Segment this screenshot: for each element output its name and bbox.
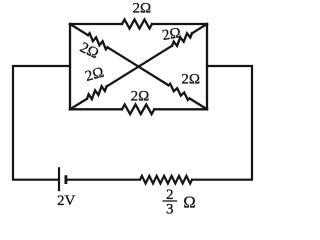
svg-text:Ω: Ω: [183, 192, 195, 211]
svg-text:2V: 2V: [57, 193, 76, 209]
svg-text:3: 3: [166, 202, 174, 218]
svg-text:2Ω: 2Ω: [181, 72, 200, 88]
svg-text:2Ω: 2Ω: [161, 25, 182, 44]
svg-text:2Ω: 2Ω: [131, 89, 150, 105]
svg-text:2Ω: 2Ω: [132, 1, 151, 17]
